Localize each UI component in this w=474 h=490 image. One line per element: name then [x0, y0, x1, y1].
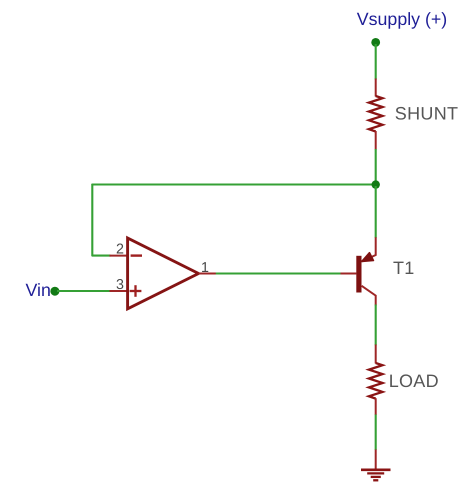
wire feedback horizontal (junction to left) — [92, 183, 375, 185]
svg-text:1: 1 — [201, 260, 209, 276]
wire feedback to op-amp pin 2 — [92, 255, 110, 257]
svg-text:LOAD: LOAD — [389, 371, 439, 391]
wire Vin to op-amp pin 3 — [57, 290, 111, 292]
ground bar 2 — [367, 472, 384, 474]
ground bar 3 — [371, 476, 381, 478]
svg-text:2: 2 — [116, 241, 124, 257]
wire Vsupply dot to SHUNT top — [375, 44, 377, 80]
T1 base stub — [341, 273, 357, 275]
T1 collector lead — [362, 286, 376, 306]
wire T1 collector to LOAD — [375, 305, 377, 346]
wire op-amp output to T1 base — [216, 272, 341, 274]
svg-text:SHUNT: SHUNT — [395, 104, 459, 124]
resistor LOAD — [369, 345, 383, 416]
terminal node Vin — [50, 287, 59, 296]
T1 base bar — [356, 256, 361, 293]
T1 emitter arrow — [362, 253, 374, 262]
T1 emitter lead — [362, 237, 376, 261]
op-amp pin 3 stub — [110, 290, 128, 292]
svg-text:Vin: Vin — [26, 280, 51, 300]
op-amp pin 2 stub — [110, 255, 128, 257]
op-amp U1 — [110, 238, 217, 309]
op-amp triangle body — [128, 238, 199, 309]
ground bar 4 — [373, 479, 378, 481]
transistor T1 (PNP) — [341, 237, 376, 305]
op-amp output pin 1 stub — [199, 273, 217, 275]
wire feedback vertical — [91, 185, 93, 256]
wire junction to T1 emitter — [375, 186, 377, 238]
wire SHUNT bottom to junction — [375, 149, 377, 185]
ground — [361, 450, 391, 481]
inverting input minus mark — [131, 254, 142, 256]
wire LOAD to ground — [375, 415, 377, 451]
terminal node Vsupply — [371, 38, 380, 47]
svg-text:3: 3 — [116, 277, 124, 293]
ground pin lead — [375, 450, 377, 470]
svg-text:T1: T1 — [393, 258, 415, 278]
resistor SHUNT — [369, 79, 383, 150]
ground bar 1 — [361, 468, 391, 471]
junction node at SHUNT/T1/feedback — [372, 180, 380, 188]
svg-text:Vsupply (+): Vsupply (+) — [357, 9, 447, 29]
non-inverting input plus mark — [130, 285, 142, 297]
